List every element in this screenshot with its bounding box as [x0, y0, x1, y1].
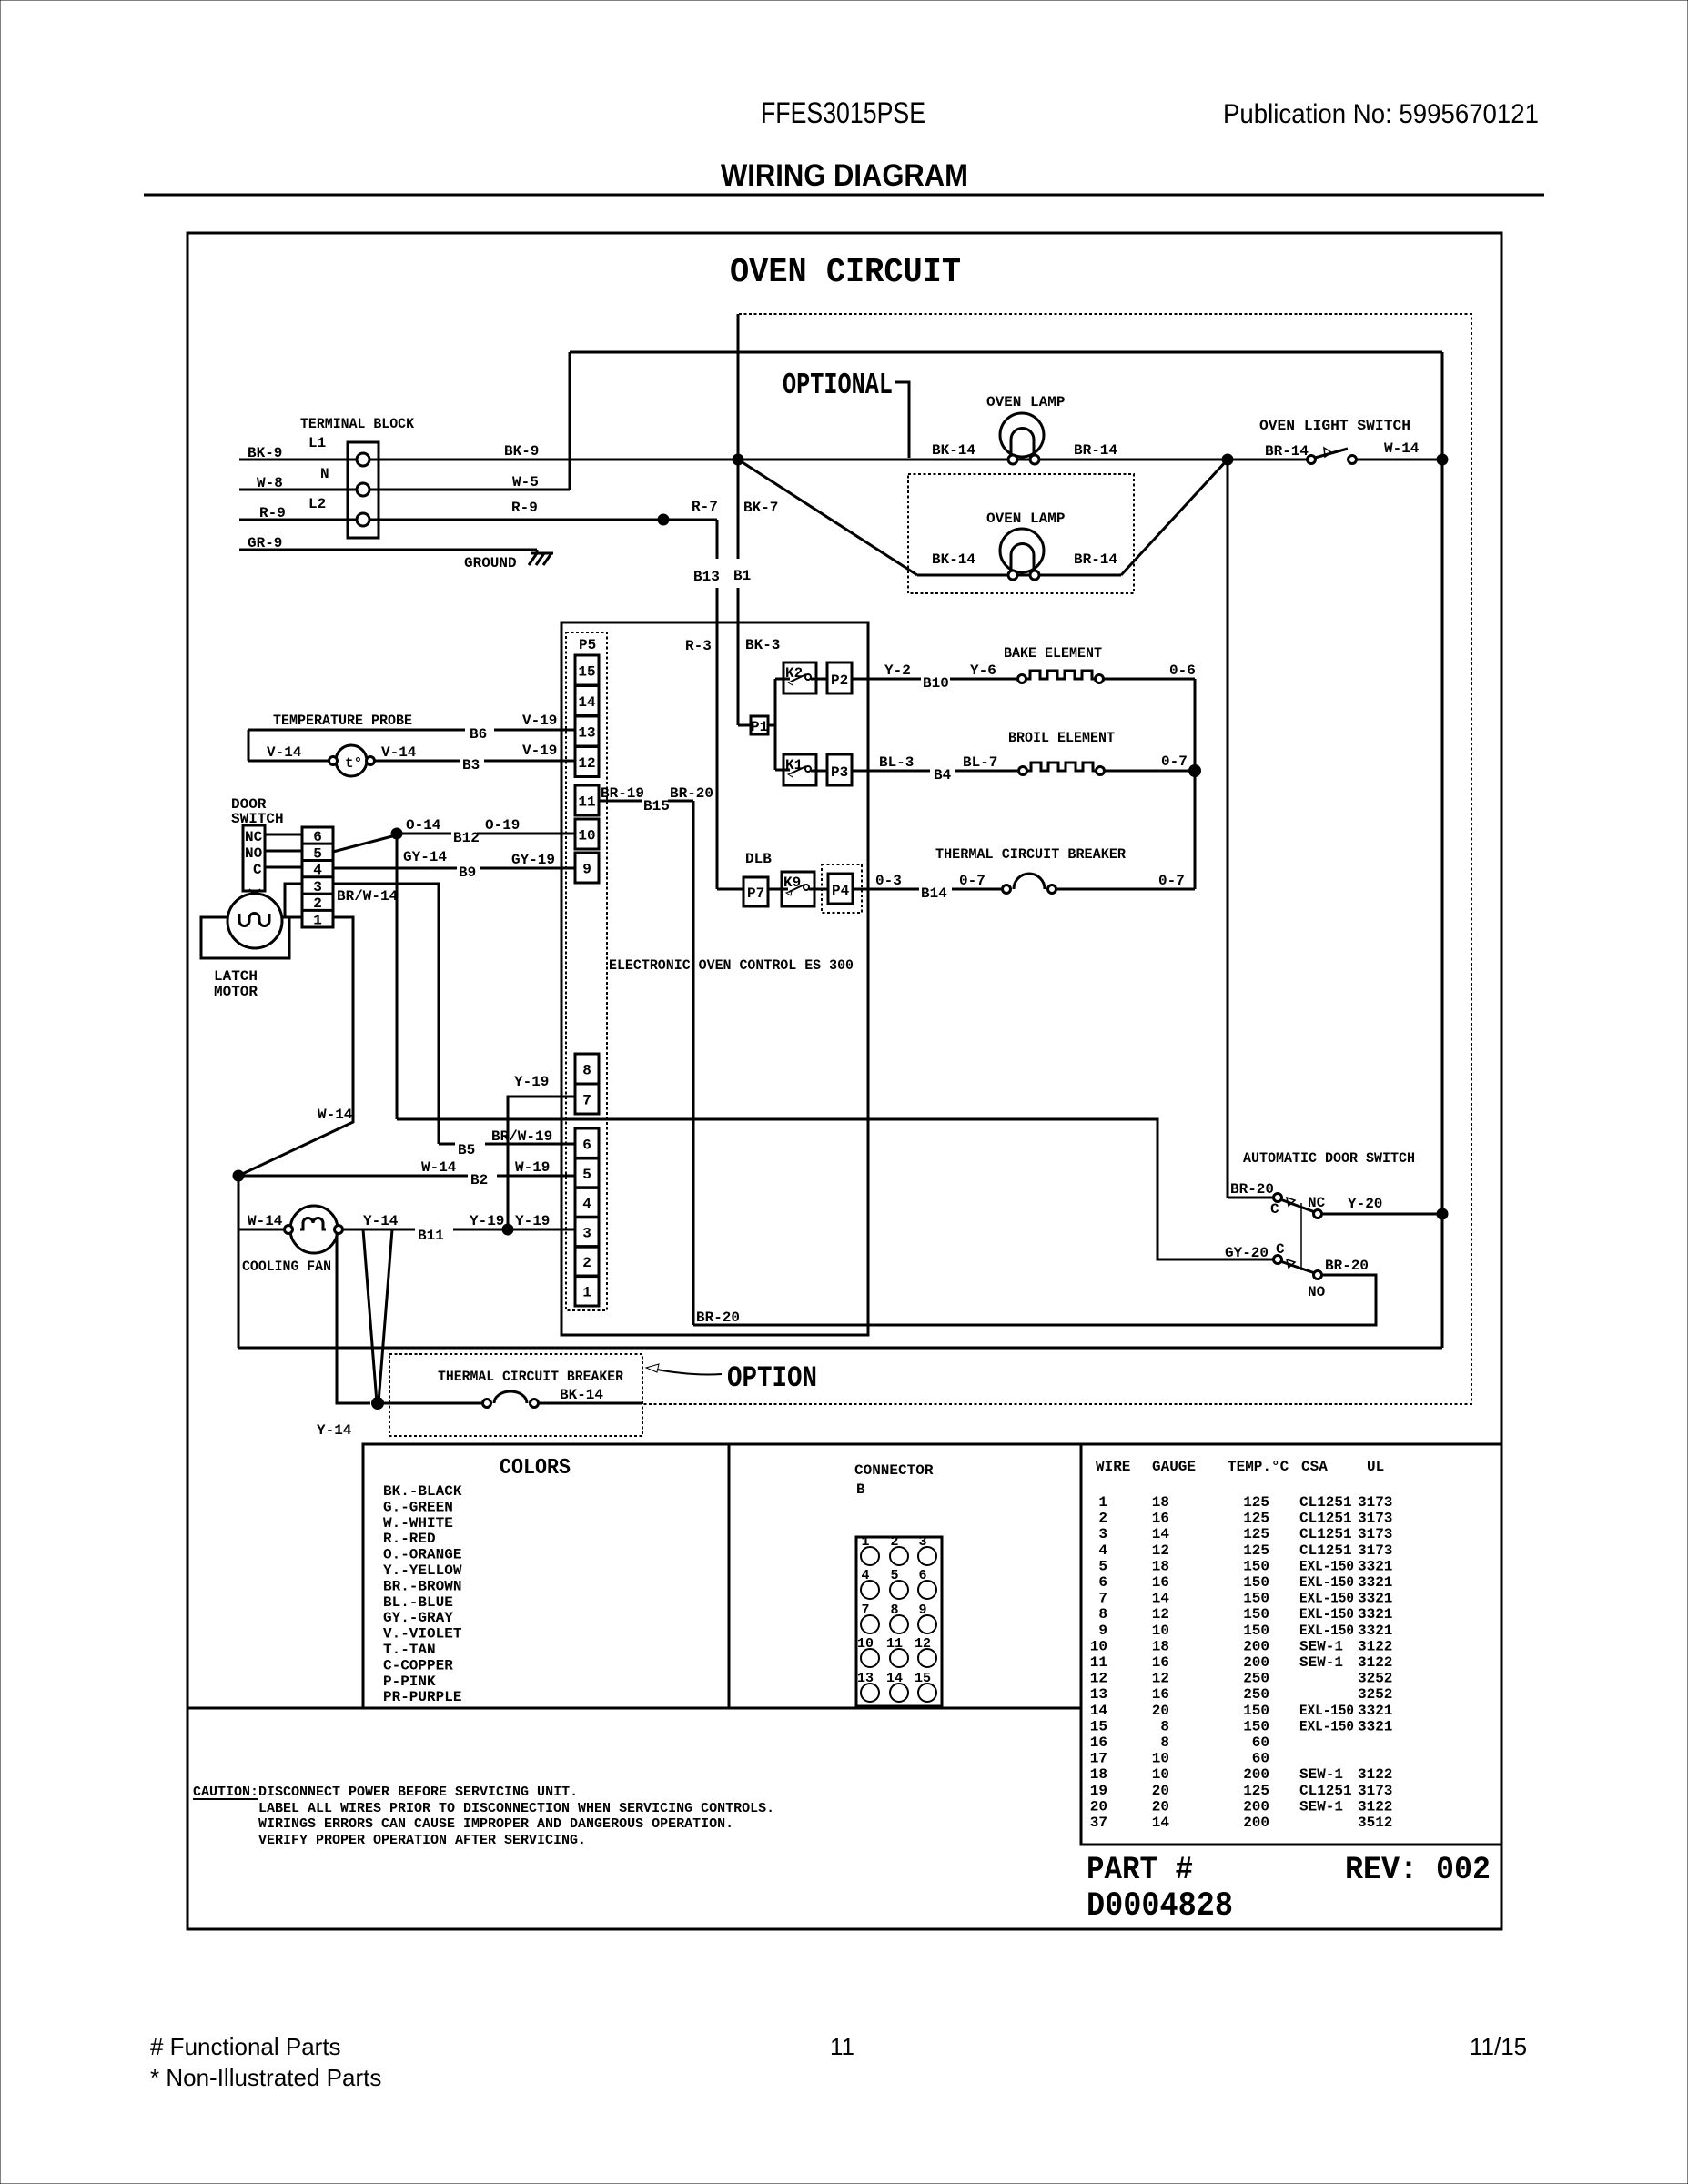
svg-text:B6: B6	[470, 726, 487, 743]
svg-text:TEMP.°C: TEMP.°C	[1228, 1459, 1289, 1475]
svg-text:3: 3	[582, 1226, 591, 1242]
svg-text:3122: 3122	[1358, 1766, 1392, 1783]
svg-text:37: 37	[1090, 1815, 1107, 1831]
upper switch blade	[1280, 1199, 1315, 1212]
svg-text:GY.-GRAY: GY.-GRAY	[383, 1610, 453, 1626]
door switch body	[243, 825, 265, 891]
wire motor to door pin1	[289, 916, 302, 919]
svg-text:125: 125	[1243, 1494, 1269, 1511]
svg-text:6: 6	[1098, 1574, 1107, 1591]
svg-text:8: 8	[1160, 1718, 1169, 1734]
terminal L1	[357, 453, 369, 466]
lower switch NO terminal	[1314, 1271, 1322, 1279]
relay contact K2	[783, 662, 827, 693]
svg-text:THERMAL CIRCUIT BREAKER: THERMAL CIRCUIT BREAKER	[935, 846, 1126, 863]
svg-text:3252: 3252	[1358, 1671, 1392, 1687]
svg-text:P4: P4	[832, 883, 850, 899]
svg-text:3173: 3173	[1358, 1494, 1392, 1511]
svg-text:B14: B14	[921, 885, 947, 902]
svg-text:3173: 3173	[1358, 1526, 1392, 1542]
wire W-8 line	[239, 489, 357, 491]
svg-text:CL1251: CL1251	[1299, 1542, 1352, 1559]
wire W-14 B2 W-19 to pin5	[238, 1175, 468, 1178]
wire 0-7 broil to junction	[1105, 770, 1195, 773]
wire V leg left	[363, 1229, 377, 1402]
P5 pin 8	[575, 1054, 599, 1084]
svg-text:O.-ORANGE: O.-ORANGE	[383, 1547, 461, 1563]
svg-text:1: 1	[313, 913, 322, 929]
lower switch blade	[1280, 1261, 1315, 1273]
wire R-3 into P7	[717, 888, 743, 891]
svg-text:3173: 3173	[1358, 1511, 1392, 1527]
wire W-5 neutral loop top edge	[570, 351, 1442, 354]
relay coil P7	[743, 877, 768, 906]
svg-text:20: 20	[1152, 1783, 1169, 1799]
svg-text:BR.-BROWN: BR.-BROWN	[383, 1578, 461, 1594]
svg-text:18: 18	[1152, 1558, 1169, 1574]
door connector body	[302, 827, 333, 927]
svg-text:Y-19: Y-19	[514, 1074, 549, 1090]
svg-text:12: 12	[578, 755, 595, 772]
svg-text:BAKE ELEMENT: BAKE ELEMENT	[1004, 645, 1102, 662]
svg-text:UL: UL	[1367, 1459, 1384, 1475]
svg-text:3321: 3321	[1358, 1574, 1392, 1591]
svg-text:5: 5	[582, 1167, 591, 1183]
svg-text:CONNECTOR: CONNECTOR	[854, 1462, 934, 1479]
oven lamp 1 symbol	[1000, 413, 1044, 464]
svg-text:BR-19: BR-19	[601, 785, 644, 802]
relay terminal P2	[827, 662, 852, 693]
svg-text:125: 125	[1243, 1526, 1269, 1542]
svg-text:150: 150	[1243, 1718, 1269, 1734]
P5 pin 3	[575, 1217, 599, 1247]
svg-text:R-9: R-9	[511, 500, 538, 516]
P5 pin 9	[575, 853, 599, 883]
svg-text:16: 16	[1090, 1734, 1107, 1751]
svg-text:10: 10	[1152, 1623, 1169, 1639]
svg-text:BL-3: BL-3	[879, 754, 914, 771]
svg-text:# Functional Parts: # Functional Parts	[150, 2033, 341, 2060]
svg-text:LABEL ALL WIRES PRIOR TO DISCO: LABEL ALL WIRES PRIOR TO DISCONNECTION W…	[258, 1801, 774, 1816]
svg-text:SEW-1: SEW-1	[1299, 1798, 1343, 1815]
wire neutral loop right edge	[1441, 352, 1444, 1348]
wire BR-19 B15 BR-20 from pin11	[599, 800, 642, 803]
svg-text:R-3: R-3	[685, 638, 712, 654]
bottom section top edge	[363, 1443, 1501, 1446]
svg-text:MOTOR: MOTOR	[214, 984, 258, 1000]
svg-text:W-8: W-8	[257, 475, 283, 491]
svg-text:BK-14: BK-14	[932, 442, 975, 459]
svg-text:150: 150	[1243, 1606, 1269, 1623]
door connector divider	[302, 859, 333, 862]
wire BR-20 into upper switch	[1228, 1197, 1273, 1199]
svg-text:W-5: W-5	[512, 474, 539, 490]
svg-text:Y-20: Y-20	[1348, 1196, 1382, 1212]
relay contact K9	[782, 872, 828, 906]
svg-text:EXL-150: EXL-150	[1299, 1558, 1354, 1574]
svg-text:11: 11	[578, 794, 595, 811]
svg-text:NC: NC	[245, 829, 263, 845]
svg-text:B12: B12	[453, 830, 480, 846]
svg-text:BK-9: BK-9	[504, 443, 539, 460]
svg-text:BR-14: BR-14	[1074, 442, 1117, 459]
svg-text:10: 10	[1152, 1751, 1169, 1767]
svg-text:14: 14	[1152, 1591, 1170, 1607]
junction dot Y-20 neutral	[1437, 1208, 1449, 1220]
svg-text:EXL-150: EXL-150	[1299, 1591, 1354, 1607]
svg-text:WIRINGS ERRORS CAN CAUSE IMPRO: WIRINGS ERRORS CAN CAUSE IMPROPER AND DA…	[258, 1816, 733, 1832]
OPTION pointer arrow	[657, 1370, 722, 1374]
terminal block body	[348, 442, 379, 538]
upper switch C terminal	[1274, 1194, 1282, 1202]
wire Y-14 B11 Y-19 fan to pin3	[343, 1228, 415, 1231]
svg-text:8: 8	[1160, 1734, 1169, 1751]
svg-text:150: 150	[1243, 1703, 1269, 1719]
svg-text:BR/W-19: BR/W-19	[491, 1128, 552, 1145]
svg-text:125: 125	[1243, 1783, 1269, 1799]
P5 pin 1	[575, 1276, 599, 1306]
relay terminal P4 dashed enclosure	[822, 864, 862, 913]
wire Y-20	[1322, 1213, 1442, 1216]
outer border frame	[187, 233, 1501, 1929]
svg-text:LATCH: LATCH	[214, 968, 258, 985]
wire GR-9 line	[239, 549, 537, 551]
svg-text:0-7: 0-7	[1158, 873, 1185, 889]
wire Y-2 B10 Y-6	[852, 678, 921, 681]
wire BL-3 B4 BL-7	[852, 770, 930, 773]
wire rail from O-14 node	[397, 1119, 1273, 1259]
P5 pin 15	[575, 655, 599, 685]
wire BK-3 into P1	[738, 724, 751, 727]
svg-text:16: 16	[1152, 1511, 1169, 1527]
svg-text:Y-2: Y-2	[884, 662, 911, 679]
wire 0-7 breaker to drop	[1056, 888, 1195, 891]
svg-text:WIRING DIAGRAM: WIRING DIAGRAM	[721, 158, 968, 193]
svg-text:250: 250	[1243, 1686, 1269, 1703]
svg-text:B15: B15	[643, 798, 670, 814]
svg-text:GY-19: GY-19	[511, 852, 555, 868]
svg-text:B9: B9	[459, 864, 476, 881]
svg-text:P7: P7	[747, 885, 764, 902]
svg-text:W-14: W-14	[318, 1107, 353, 1123]
wire Y-19 to pin7	[508, 1097, 575, 1229]
svg-text:DLB: DLB	[745, 851, 772, 867]
junction dot broil/bake return	[1188, 764, 1201, 777]
wire element return drop	[1194, 679, 1197, 889]
door connector divider	[302, 875, 333, 878]
svg-text:C-COPPER: C-COPPER	[383, 1657, 453, 1673]
svg-text:14: 14	[1090, 1703, 1108, 1719]
svg-text:0-7: 0-7	[959, 873, 986, 889]
lower switch C terminal	[1274, 1256, 1282, 1264]
svg-text:Y-19: Y-19	[515, 1213, 550, 1229]
P5 pin 13	[575, 716, 599, 746]
connector P5 dashed outline	[566, 632, 607, 1310]
svg-text:D0004828: D0004828	[1087, 1887, 1233, 1926]
svg-text:BROIL ELEMENT: BROIL ELEMENT	[1008, 730, 1115, 746]
svg-text:17: 17	[1090, 1751, 1107, 1767]
svg-text:CAUTION:DISCONNECT POWER BEFOR: CAUTION:DISCONNECT POWER BEFORE SERVICIN…	[193, 1785, 578, 1800]
svg-text:60: 60	[1252, 1751, 1269, 1767]
svg-text:W.-WHITE: W.-WHITE	[383, 1515, 453, 1532]
svg-text:N: N	[320, 466, 329, 482]
relay terminal P3	[827, 754, 852, 785]
svg-text:W-14: W-14	[421, 1159, 457, 1176]
svg-text:EXL-150: EXL-150	[1299, 1718, 1354, 1734]
svg-text:Publication No: 5995670121: Publication No: 5995670121	[1223, 99, 1539, 129]
svg-text:GROUND: GROUND	[464, 555, 517, 571]
svg-text:W-14: W-14	[1384, 440, 1420, 457]
svg-text:BK-7: BK-7	[743, 500, 778, 516]
svg-text:O-14: O-14	[406, 817, 441, 834]
wire into option breaker	[378, 1402, 483, 1405]
svg-text:CL1251: CL1251	[1299, 1783, 1352, 1799]
svg-text:Y.-YELLOW: Y.-YELLOW	[383, 1562, 462, 1579]
svg-text:11: 11	[830, 2033, 854, 2060]
svg-text:BR-20: BR-20	[1230, 1181, 1274, 1198]
svg-text:GR-9: GR-9	[248, 535, 282, 551]
P5 pin 2	[575, 1247, 599, 1277]
svg-text:BR-14: BR-14	[1074, 551, 1117, 568]
svg-text:COLORS: COLORS	[500, 1456, 571, 1481]
diagonal wire to optional lamp left	[738, 460, 917, 575]
bake element symbol	[1018, 671, 1104, 683]
P5 pin 14	[575, 686, 599, 716]
wire GY-14 B9 GY-19 pin4 to pin9	[333, 867, 457, 870]
svg-text:R-7: R-7	[692, 499, 718, 515]
wire R-9 line	[239, 519, 357, 521]
svg-text:t°: t°	[345, 755, 362, 772]
wire V leg right	[379, 1229, 392, 1402]
svg-text:CL1251: CL1251	[1299, 1494, 1352, 1511]
svg-text:11/15: 11/15	[1470, 2033, 1527, 2060]
svg-text:EXL-150: EXL-150	[1299, 1606, 1354, 1623]
wire BK-14 out of option breaker	[539, 1402, 642, 1405]
upper switch NC terminal	[1314, 1210, 1322, 1218]
caution section divider	[187, 1707, 1081, 1710]
svg-text:5: 5	[1098, 1558, 1107, 1574]
svg-text:B5: B5	[458, 1142, 475, 1158]
svg-text:COOLING FAN: COOLING FAN	[242, 1259, 331, 1275]
electronic oven control box	[561, 622, 868, 1335]
svg-text:8: 8	[582, 1063, 591, 1079]
wire 0-6 to right drop	[1104, 678, 1195, 681]
wire neutral loop bottom edge	[238, 1347, 1442, 1350]
svg-text:OPTIONAL: OPTIONAL	[783, 369, 893, 402]
svg-text:20: 20	[1090, 1798, 1107, 1815]
svg-text:150: 150	[1243, 1623, 1269, 1639]
svg-text:10: 10	[1152, 1766, 1169, 1783]
wire pin3 left to motor node	[285, 884, 302, 917]
junction dot O-14	[391, 828, 403, 840]
svg-text:3321: 3321	[1358, 1703, 1392, 1719]
wire neutral loop left edge	[569, 352, 571, 490]
svg-text:O-19: O-19	[485, 817, 520, 834]
svg-text:19: 19	[1090, 1783, 1107, 1799]
wire V-14 probe left	[248, 760, 329, 763]
svg-text:P-PINK: P-PINK	[383, 1673, 436, 1690]
svg-text:3173: 3173	[1358, 1783, 1392, 1799]
svg-text:6: 6	[582, 1137, 591, 1154]
svg-text:Y-14: Y-14	[317, 1422, 352, 1439]
P5 pin 5	[575, 1158, 599, 1188]
wire BK-9 L1 line	[239, 459, 357, 461]
svg-text:B13: B13	[693, 569, 720, 585]
svg-text:B2: B2	[470, 1172, 488, 1188]
ground symbol	[529, 550, 553, 565]
svg-text:TERMINAL BLOCK: TERMINAL BLOCK	[300, 416, 414, 432]
svg-text:BK-3: BK-3	[745, 637, 780, 653]
OPTIONAL pointer bracket	[895, 382, 909, 458]
oven lamp 2 symbol	[1000, 529, 1044, 580]
svg-text:BR/W-14: BR/W-14	[337, 888, 399, 905]
svg-text:Y-14: Y-14	[363, 1213, 399, 1229]
junction dot on R-9 wire	[658, 514, 670, 526]
svg-text:2: 2	[582, 1255, 591, 1271]
svg-text:W-19: W-19	[515, 1159, 550, 1176]
door switch to motor link	[249, 889, 260, 895]
svg-text:3173: 3173	[1358, 1542, 1392, 1559]
switch mechanical link	[1300, 1203, 1302, 1270]
svg-text:B10: B10	[923, 675, 949, 692]
wire O-14 node drop	[396, 834, 399, 1119]
svg-text:P3: P3	[831, 764, 848, 781]
svg-text:20: 20	[1152, 1703, 1169, 1719]
svg-text:NC: NC	[1308, 1195, 1326, 1211]
svg-text:OVEN LAMP: OVEN LAMP	[986, 394, 1065, 410]
svg-text:GY-20: GY-20	[1225, 1245, 1269, 1261]
svg-text:0-7: 0-7	[1161, 753, 1188, 770]
diagonal wire from optional lamp right	[1121, 460, 1228, 575]
wire BK-7 drop (BK-3)	[737, 460, 740, 559]
wire: left edge of optional zone x=811 top	[737, 314, 740, 460]
svg-text:14: 14	[578, 694, 596, 711]
wire V-14 B3 V-19 to pin12	[375, 760, 460, 763]
svg-text:B11: B11	[418, 1228, 444, 1244]
svg-text:BR-20: BR-20	[670, 785, 713, 802]
door connector divider	[302, 909, 333, 912]
wire rail to K1	[775, 769, 790, 772]
svg-text:200: 200	[1243, 1798, 1269, 1815]
svg-text:EXL-150: EXL-150	[1299, 1623, 1354, 1639]
wire NO to pin5	[265, 850, 302, 853]
colors box	[363, 1444, 729, 1708]
svg-text:BK-9: BK-9	[248, 445, 282, 461]
wire NC to pin6	[265, 834, 302, 836]
option breaker symbol	[483, 1391, 539, 1408]
dashed box around optional lamp	[908, 474, 1134, 593]
svg-text:3122: 3122	[1358, 1654, 1392, 1671]
wire W-14 to fan	[238, 1228, 285, 1231]
P5 pin 10	[575, 819, 599, 849]
svg-text:BR-20: BR-20	[1325, 1258, 1369, 1274]
connector box	[729, 1444, 1081, 1708]
svg-text:V-19: V-19	[522, 743, 557, 759]
svg-text:3122: 3122	[1358, 1798, 1392, 1815]
svg-text:16: 16	[1152, 1654, 1169, 1671]
wire latch motor loop	[201, 917, 289, 958]
svg-text:10: 10	[578, 828, 595, 844]
svg-text:14: 14	[1152, 1815, 1170, 1831]
svg-text:3321: 3321	[1358, 1606, 1392, 1623]
wire probe left leg	[248, 730, 250, 761]
svg-text:CL1251: CL1251	[1299, 1526, 1352, 1542]
svg-text:0-6: 0-6	[1169, 662, 1196, 679]
svg-text:0-3: 0-3	[875, 873, 902, 889]
svg-text:B4: B4	[934, 767, 952, 784]
svg-text:C: C	[253, 862, 262, 878]
wire fan right terminal drop	[337, 1234, 370, 1403]
svg-text:16: 16	[1152, 1686, 1169, 1703]
wire BR-20 bottom run	[693, 1275, 1376, 1325]
junction dot BK-9 branch	[733, 454, 744, 466]
svg-text:15: 15	[1090, 1718, 1107, 1734]
svg-text:V-14: V-14	[267, 744, 302, 761]
svg-text:R-9: R-9	[259, 505, 286, 521]
svg-text:P1: P1	[751, 719, 768, 735]
dashed OPTIONAL enclosure	[642, 314, 1471, 1404]
svg-text:P5: P5	[579, 637, 596, 653]
option breaker dashed box	[389, 1354, 642, 1436]
P5 pin 7	[575, 1084, 599, 1114]
svg-text:3: 3	[1098, 1526, 1107, 1542]
wire P7 to K9	[768, 888, 788, 891]
svg-text:4: 4	[582, 1196, 591, 1212]
svg-text:PART #: PART #	[1087, 1852, 1193, 1888]
svg-text:10: 10	[1090, 1638, 1107, 1654]
junction dot on neutral right edge	[1437, 454, 1449, 466]
svg-text:CSA: CSA	[1301, 1459, 1328, 1475]
junction dot lamp wire right	[1222, 454, 1234, 466]
svg-text:BR-20: BR-20	[696, 1309, 740, 1326]
broil element symbol	[1019, 763, 1105, 775]
terminal N	[357, 483, 369, 496]
svg-text:200: 200	[1243, 1815, 1269, 1831]
temperature probe symbol	[329, 745, 375, 776]
svg-text:12: 12	[1090, 1671, 1107, 1687]
svg-text:Y-19: Y-19	[470, 1213, 504, 1229]
svg-text:18: 18	[1152, 1638, 1169, 1654]
thermal breaker symbol	[1003, 874, 1056, 894]
svg-text:ELECTRONIC OVEN CONTROL ES 300: ELECTRONIC OVEN CONTROL ES 300	[609, 957, 854, 974]
svg-text:12: 12	[1152, 1606, 1169, 1623]
svg-text:THERMAL CIRCUIT BREAKER: THERMAL CIRCUIT BREAKER	[438, 1369, 623, 1385]
P5 pin 12	[575, 747, 599, 777]
svg-text:SEW-1: SEW-1	[1299, 1654, 1343, 1671]
svg-text:200: 200	[1243, 1766, 1269, 1783]
svg-text:150: 150	[1243, 1574, 1269, 1591]
svg-text:K9: K9	[783, 875, 801, 891]
svg-text:V-14: V-14	[381, 744, 417, 761]
wire neutral riser to fan junction	[238, 1176, 240, 1348]
wire B6 to pin13	[248, 729, 465, 732]
door connector divider	[302, 843, 333, 845]
svg-text:3252: 3252	[1358, 1686, 1392, 1703]
svg-text:125: 125	[1243, 1511, 1269, 1527]
svg-text:60: 60	[1252, 1734, 1269, 1751]
svg-text:8: 8	[1098, 1606, 1107, 1623]
svg-text:18: 18	[1152, 1494, 1169, 1511]
relay terminal P4	[828, 874, 853, 904]
svg-text:AUTOMATIC DOOR SWITCH: AUTOMATIC DOOR SWITCH	[1243, 1150, 1415, 1167]
svg-text:150: 150	[1243, 1558, 1269, 1574]
P5 pin 6	[575, 1128, 599, 1158]
junction dot pin3 wire	[502, 1224, 514, 1236]
svg-text:3321: 3321	[1358, 1591, 1392, 1607]
svg-text:13: 13	[578, 725, 595, 742]
svg-text:OPTION: OPTION	[727, 1361, 817, 1395]
svg-text:EXL-150: EXL-150	[1299, 1574, 1354, 1591]
